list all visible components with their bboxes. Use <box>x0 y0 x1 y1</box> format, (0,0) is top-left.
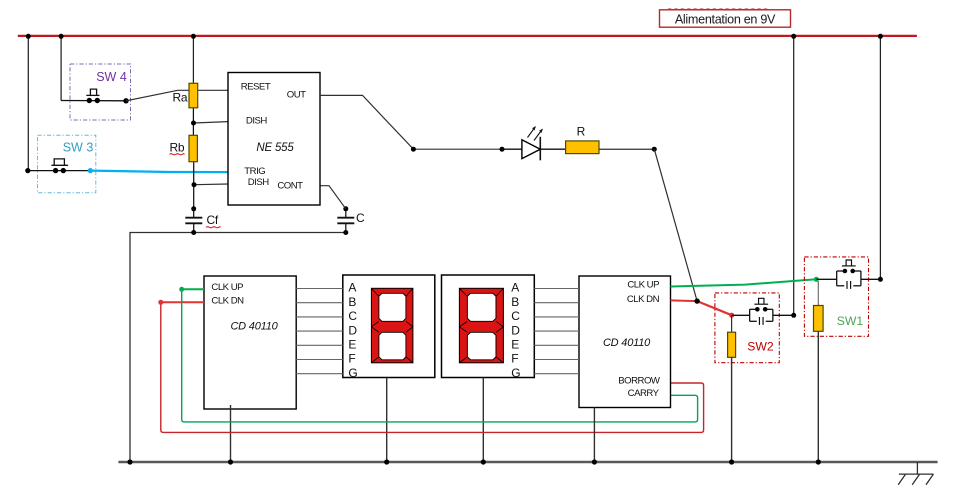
svg-text:A: A <box>511 281 519 295</box>
svg-text:TRIG: TRIG <box>244 166 265 177</box>
svg-text:Cf: Cf <box>207 213 219 227</box>
svg-text:CARRY: CARRY <box>628 388 660 399</box>
svg-text:RESET: RESET <box>241 82 271 93</box>
svg-text:G: G <box>511 366 520 380</box>
svg-text:CLK UP: CLK UP <box>627 279 659 290</box>
svg-text:E: E <box>348 338 356 352</box>
svg-text:DISH: DISH <box>248 177 269 188</box>
svg-text:CONT: CONT <box>277 181 303 192</box>
svg-text:CD 40110: CD 40110 <box>230 321 278 333</box>
svg-text:F: F <box>348 352 355 366</box>
svg-text:DISH: DISH <box>246 116 267 127</box>
svg-text:Ra: Ra <box>173 90 188 104</box>
svg-text:B: B <box>511 295 519 309</box>
svg-text:SW 3: SW 3 <box>63 141 94 155</box>
svg-text:G: G <box>348 366 357 380</box>
svg-text:CLK DN: CLK DN <box>627 294 660 305</box>
svg-text:A: A <box>348 281 356 295</box>
svg-text:CLK UP: CLK UP <box>211 282 243 293</box>
svg-text:C: C <box>348 309 357 323</box>
svg-text:B: B <box>348 295 356 309</box>
svg-text:D: D <box>511 323 520 337</box>
svg-text:E: E <box>511 338 519 352</box>
svg-text:F: F <box>511 352 518 366</box>
svg-text:CD 40110: CD 40110 <box>603 337 651 349</box>
svg-text:R: R <box>577 125 586 139</box>
svg-text:C: C <box>356 211 365 225</box>
svg-text:Alimentation en 9V: Alimentation en 9V <box>675 12 776 26</box>
svg-text:Rb: Rb <box>170 140 185 154</box>
svg-text:SW2: SW2 <box>747 339 774 353</box>
svg-text:SW1: SW1 <box>837 314 864 328</box>
svg-text:CLK DN: CLK DN <box>211 296 244 307</box>
svg-text:BORROW: BORROW <box>618 376 661 387</box>
svg-text:D: D <box>348 323 357 337</box>
svg-text:NE 555: NE 555 <box>256 142 294 154</box>
svg-text:OUT: OUT <box>287 90 306 101</box>
svg-text:C: C <box>511 309 520 323</box>
svg-text:SW 4: SW 4 <box>96 70 127 84</box>
